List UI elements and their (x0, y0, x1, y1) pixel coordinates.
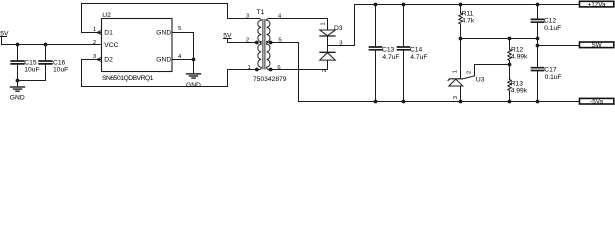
capacitor C16 (39, 45, 52, 81)
node junction C14 bottom (402, 100, 406, 104)
svg-text:0.1uF: 0.1uF (545, 74, 562, 81)
svg-text:1: 1 (93, 27, 96, 33)
node junction SW tee (536, 44, 540, 48)
svg-text:3: 3 (93, 54, 97, 60)
svg-text:1: 1 (248, 65, 251, 71)
wire +12Va top rail (355, 4, 580, 6)
svg-text:C14: C14 (410, 47, 423, 54)
svg-text:-5Va: -5Va (590, 99, 603, 106)
svg-text:R13: R13 (511, 80, 524, 87)
svg-text:5V: 5V (223, 33, 232, 40)
wire to SW flag (538, 45, 580, 47)
wire U3 ref to junction (462, 65, 510, 80)
svg-text:5V: 5V (0, 31, 9, 38)
diode D3 upper (anode top, cathode node 3) (320, 30, 336, 46)
node junction C13 bottom (374, 100, 378, 104)
svg-text:3: 3 (453, 95, 459, 99)
node junction C13 top (374, 3, 378, 7)
pin 3 arrow D2 (97, 57, 102, 61)
node junction R12 top (508, 37, 512, 41)
T1 phase dot pin5 (269, 41, 273, 45)
wire U2 pin4 GND (172, 59, 194, 61)
wire T1 pin6 to D3 pin2 (272, 60, 327, 69)
node junction R11 top (459, 3, 463, 7)
resistor R12 (508, 39, 511, 65)
svg-text:0.1uF: 0.1uF (544, 25, 561, 32)
resistor R13 (508, 65, 511, 102)
net flag SW (580, 42, 614, 48)
node junction R11/U3 (459, 37, 463, 41)
node junction R13 bottom (508, 100, 512, 104)
T1 phase dot pin2 (255, 41, 259, 45)
node junction C14 top (402, 3, 406, 7)
svg-text:GND: GND (156, 29, 171, 36)
svg-text:GND: GND (156, 56, 171, 63)
capacitor C15 (11, 45, 24, 81)
svg-text:SW: SW (592, 42, 602, 49)
svg-text:D2: D2 (104, 56, 113, 63)
svg-text:1: 1 (452, 70, 458, 73)
T1 phase dot pin1 (255, 68, 259, 72)
capacitor C17 (532, 46, 544, 102)
svg-text:2: 2 (93, 40, 96, 46)
wire U2 D2 loop to T1 pin1 (82, 60, 255, 87)
T1 secondary upper winding (267, 19, 271, 43)
svg-text:4.7uF: 4.7uF (382, 54, 399, 61)
node junction C17 bottom (536, 100, 540, 104)
svg-text:SN6501QDBVRQ1: SN6501QDBVRQ1 (102, 75, 154, 82)
svg-text:U3: U3 (476, 77, 485, 84)
svg-text:1: 1 (321, 22, 327, 25)
T1 primary lower winding (258, 43, 262, 70)
svg-text:R11: R11 (462, 10, 474, 17)
svg-text:2: 2 (467, 71, 473, 74)
svg-text:4.7k: 4.7k (462, 17, 475, 24)
capacitor C12 (532, 5, 544, 39)
node junction pin4/pin5 (192, 58, 196, 62)
capacitor C14 (398, 5, 410, 102)
node junction U3 bottom (459, 100, 463, 104)
svg-text:GND: GND (186, 82, 201, 89)
diode D3 lower (anode bottom, cathode node 3) (320, 46, 336, 61)
wire C12 to SW tee (537, 39, 539, 46)
node junction C16 top (44, 43, 48, 47)
svg-text:4.99k: 4.99k (511, 53, 528, 60)
resistor R11 (459, 5, 462, 39)
wire 5V net label at T1 pin2 (224, 39, 255, 43)
svg-text:2: 2 (246, 38, 249, 44)
T1 primary upper winding (258, 19, 262, 43)
svg-text:C12: C12 (544, 18, 557, 25)
svg-text:C17: C17 (544, 66, 557, 73)
ground GND left (11, 81, 25, 92)
shunt regulator U3 (TL431) (448, 39, 463, 102)
node junction C12/C17 mid (536, 37, 540, 41)
svg-text:R12: R12 (511, 46, 524, 53)
wire SW rail (461, 38, 538, 40)
svg-text:T1: T1 (257, 9, 265, 16)
wire 5V net label left (1, 37, 102, 45)
svg-text:6: 6 (277, 65, 281, 71)
svg-text:D3: D3 (334, 25, 343, 32)
node junction at ground (16, 79, 20, 83)
ground GND U2 (187, 60, 201, 79)
wire -5Va bottom rail (299, 101, 580, 103)
pin 1 arrow D1 (97, 30, 102, 34)
svg-text:U2: U2 (102, 12, 111, 19)
svg-text:+12Va: +12Va (588, 1, 606, 8)
wire C15/C16 bottoms to ground (18, 80, 46, 82)
capacitor C13 (370, 5, 382, 102)
svg-text:C15: C15 (24, 60, 37, 67)
T1 phase dot pin6 (269, 68, 273, 72)
svg-text:5: 5 (178, 26, 182, 32)
svg-text:2: 2 (322, 69, 328, 72)
wire T1 pin4 to D3 pin1 (269, 19, 328, 31)
svg-text:C16: C16 (53, 60, 66, 67)
T1 core (263, 20, 265, 70)
wire U2 pin5 GND to junction (172, 33, 194, 60)
node junction R12/R13/ref (508, 63, 512, 67)
wire T1 pin5 to secondary common (272, 43, 298, 102)
svg-text:10uF: 10uF (24, 67, 39, 74)
svg-text:D1: D1 (104, 29, 113, 36)
wire U2 D1 loop to T1 pin3 (82, 4, 260, 33)
svg-text:C13: C13 (382, 47, 395, 54)
svg-text:4.7uF: 4.7uF (410, 54, 427, 61)
svg-text:4.99k: 4.99k (511, 88, 528, 95)
node junction C12 top (536, 3, 540, 7)
IC U2 SN6501QDBVRQ1 body (102, 19, 173, 72)
wire D3 node3 to +12Va rail (328, 5, 355, 46)
net flag -5Va (580, 98, 614, 104)
transformer T1 (255, 19, 273, 72)
node junction C15 top (16, 43, 20, 47)
T1 secondary lower winding (267, 43, 271, 70)
svg-text:750342879: 750342879 (253, 76, 287, 83)
svg-text:VCC: VCC (104, 42, 118, 49)
svg-text:10uF: 10uF (53, 67, 68, 74)
net flag +12Va (580, 1, 614, 7)
svg-text:GND: GND (10, 95, 25, 102)
